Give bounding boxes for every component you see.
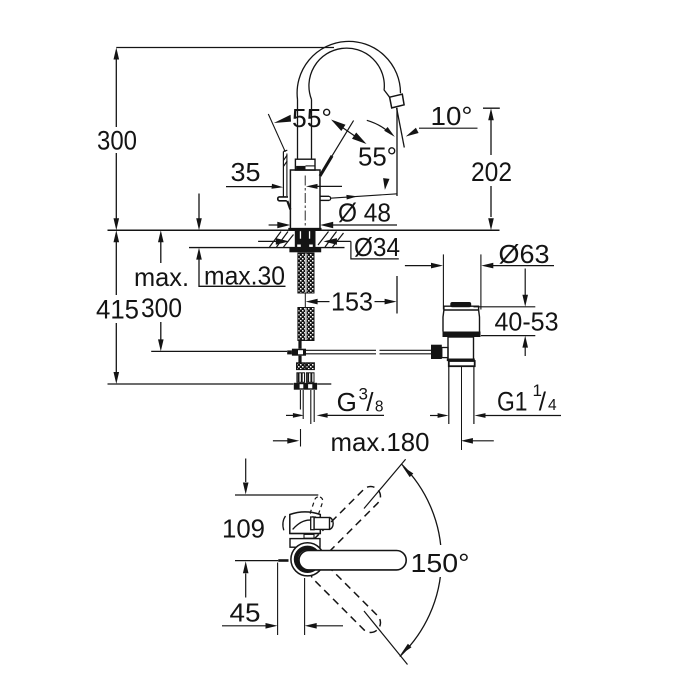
spout arc inner wall [309, 48, 390, 99]
202 top reference line [483, 107, 500, 109]
svg-text:150°: 150° [411, 548, 470, 578]
55deg-1 left arrow [274, 115, 291, 123]
svg-text:45: 45 [230, 598, 261, 628]
label 150deg [407, 545, 474, 577]
shank centerline in gap [304, 293, 306, 308]
55deg-2 down arrow [383, 178, 389, 190]
svg-text:Ø 48: Ø 48 [338, 198, 391, 228]
handle extreme-left position line [268, 114, 285, 152]
svg-text:300: 300 [141, 293, 182, 323]
plan lever cylinder [314, 518, 329, 530]
pop-up rod stem upper [298, 341, 301, 349]
plan body dome [290, 512, 321, 534]
faucet body [290, 170, 320, 229]
svg-text:55°: 55° [292, 103, 332, 133]
plan spout tip tab [278, 559, 288, 562]
hose connector bottom nuts [294, 383, 317, 390]
svg-text:max.: max. [134, 262, 189, 292]
pop-up rod right segments [306, 349, 376, 351]
pop-up rod clamp [292, 349, 306, 356]
150deg angle leg upper [364, 459, 406, 508]
threaded shank knurled segment 2 [298, 308, 306, 341]
40-53 upper arrow [524, 269, 526, 296]
spout riser right wall [311, 100, 313, 160]
45 extension lines [277, 563, 279, 636]
drain plug cap [450, 302, 471, 307]
plan lever flange [311, 517, 314, 530]
outlet 10-degree tilted line [397, 108, 405, 148]
plan handle pill [299, 551, 406, 570]
pop-up rod left segment / max300 reference [151, 350, 287, 352]
lever handle [320, 156, 332, 176]
spout base block [295, 159, 315, 170]
handle dashed position upper [307, 482, 385, 560]
plan top reference line [235, 494, 318, 496]
knurl center slit [305, 254, 307, 293]
plan raised-handle dashed stub [309, 496, 324, 519]
svg-text:/: / [366, 387, 374, 417]
150deg angle leg lower [364, 611, 408, 665]
dimension 153 [306, 299, 318, 305]
body centerline [304, 176, 306, 228]
plan body band [290, 533, 321, 535]
svg-text:G: G [337, 387, 357, 417]
dimension 35 left arrow [226, 186, 274, 188]
svg-text:10°: 10° [431, 101, 473, 131]
countertop line [108, 229, 500, 231]
drain tailpipe [448, 366, 450, 424]
hose connector right [306, 363, 314, 370]
dimension 45 [222, 625, 267, 627]
svg-text:/: / [539, 387, 547, 417]
hose extension line for max180 [300, 429, 302, 447]
55deg-2 arc with arrowhead [367, 120, 391, 134]
diam34 label leader step [351, 241, 399, 259]
svg-text:max.30: max.30 [204, 261, 285, 291]
plan swivel collar [290, 539, 320, 548]
hook lever end [278, 197, 288, 201]
handle dashed position lower [307, 559, 385, 637]
dimension 109 [245, 459, 247, 483]
40-53 lower arrow [522, 336, 528, 348]
svg-text:35: 35 [231, 157, 261, 187]
spout top reference line [116, 47, 334, 49]
svg-text:max.180: max.180 [331, 427, 430, 457]
svg-text:40-53: 40-53 [495, 307, 559, 337]
max.30 upper arrow [198, 194, 200, 220]
plan swivel ring thick [296, 548, 319, 571]
max.30 label with leader [199, 267, 286, 287]
svg-text:G1: G1 [497, 386, 528, 416]
dimension max 300 line [158, 230, 164, 242]
dimension 415 line [114, 230, 120, 242]
dimension diam48 [269, 224, 281, 226]
spout riser left wall [297, 100, 299, 160]
mounting washer under deck [289, 248, 321, 252]
plan body inner curve [293, 520, 312, 529]
svg-text:55°: 55° [358, 142, 397, 172]
55deg-1 double arrow [333, 121, 365, 143]
hose connector left [297, 363, 305, 370]
plan escutcheon outer circle [291, 543, 324, 576]
svg-text:415: 415 [96, 295, 139, 325]
tailpipe centerline [461, 366, 463, 450]
dimension 300 line [114, 48, 120, 60]
drain flange [443, 306, 480, 331]
svg-text:202: 202 [471, 157, 512, 187]
lever extension line [332, 121, 354, 156]
deck hatching right [318, 232, 329, 246]
plan left flourish [283, 516, 286, 530]
G1 1/4 dimension arrows [430, 415, 438, 417]
drain body [448, 337, 474, 360]
drain nut [449, 361, 475, 366]
415 bottom reference line [108, 383, 294, 385]
drain clevis knob [431, 345, 442, 359]
dimension diam63 [405, 265, 432, 267]
drain seal ring [443, 332, 481, 338]
max.30 lower arrow [196, 248, 202, 260]
150deg arc [400, 464, 442, 656]
outlet vertical extension line [396, 108, 398, 196]
svg-text:153: 153 [331, 287, 373, 317]
dimension max.180 [273, 440, 289, 442]
pop-up rod stem lower [298, 356, 301, 363]
base block dark band [296, 166, 305, 170]
body bottom thick edge [288, 228, 321, 231]
drain clevis link [442, 348, 448, 358]
aerator cap [390, 94, 405, 108]
svg-text:Ø34: Ø34 [354, 232, 400, 262]
40-53 top reference line [474, 306, 536, 308]
dimension 35 right arrow [306, 184, 318, 189]
spout arc outer wall [297, 41, 400, 99]
plan lever end cap [330, 518, 334, 530]
side outlet nub [320, 195, 329, 197]
diam63 extension lines [442, 254, 444, 309]
dimension 202 line [488, 108, 494, 120]
blade hatch [283, 155, 287, 161]
hose tails [299, 390, 301, 410]
handle blade profile left [282, 152, 284, 198]
G3/8 dimension arrows [286, 414, 294, 416]
svg-text:300: 300 [97, 126, 137, 156]
leader to outlet extension [331, 194, 398, 198]
deck hatching left [270, 232, 282, 248]
dimension diam34 arrows [258, 240, 279, 242]
threaded shank knurled segment 1 [298, 253, 306, 293]
deck shank cross-section block [295, 230, 316, 247]
10deg leader with arrow [419, 127, 478, 129]
counter deck bottom line [189, 247, 345, 249]
svg-text:8: 8 [375, 399, 384, 416]
40-53 bottom reference line [481, 335, 535, 337]
svg-text:Ø63: Ø63 [499, 239, 550, 269]
svg-text:4: 4 [548, 397, 557, 414]
svg-text:109: 109 [222, 514, 265, 544]
plan spout-tip reference line [235, 560, 278, 562]
